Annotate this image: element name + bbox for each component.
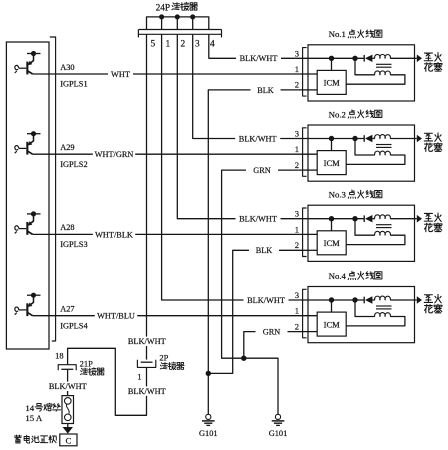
junction dot pin1 column (159, 14, 164, 19)
secondary winding T1 (375, 54, 391, 58)
coil No.3 pin2 internal wire (303, 249, 318, 251)
junction dot to primary winding No.3 (352, 216, 357, 221)
wire WHT/GRN from ECM pin A29 to coil No.2 pin 1 (33, 153, 318, 155)
svg-text:2: 2 (295, 240, 299, 250)
primary winding T1 (375, 71, 391, 75)
junction dot GRN net (241, 356, 246, 361)
fuse No.14 15A (62, 396, 74, 424)
svg-text:14: 14 (25, 403, 34, 413)
spark plug arrow No.4 (417, 296, 422, 304)
coil No.2 pin2 internal wire (303, 169, 318, 171)
spark plug label 至火花塞 No.3 (424, 213, 432, 221)
transistor Q3 (ECM driver) (15, 211, 41, 235)
svg-text:BLK/WHT: BLK/WHT (128, 387, 166, 396)
spark plug arrow No.2 (417, 135, 422, 143)
wire to primary winding No.1 (355, 58, 375, 75)
ignition coil No.4 box (308, 287, 415, 343)
svg-text:ICM: ICM (324, 238, 341, 248)
ignition coil No.2 box (308, 125, 415, 181)
battery positive terminal box C (60, 434, 77, 446)
ICM module U1 (317, 70, 346, 94)
junction dot to ICM No.2 (329, 136, 334, 141)
secondary winding T2 (375, 135, 391, 139)
svg-text:BLK/WHT: BLK/WHT (239, 215, 277, 224)
svg-text:WHT: WHT (111, 70, 130, 79)
transistor Q2 (ECM driver) (15, 131, 41, 155)
svg-text:2: 2 (295, 80, 299, 90)
24P pin1 rail drop (161, 17, 163, 29)
wire primary return to ICM No.1 (346, 75, 405, 84)
svg-text:1: 1 (295, 144, 299, 154)
svg-text:A29: A29 (60, 143, 74, 152)
24P top common rail (147, 17, 209, 29)
coil No.1 pin3 internal feed wire (303, 57, 364, 59)
svg-text:1: 1 (295, 224, 299, 234)
spark plug arrow No.1 (417, 55, 422, 63)
ECM box (6, 42, 49, 349)
wire label WHT/GRN (93, 150, 135, 159)
21P connector symbol (58, 365, 76, 371)
coil No.4 connector bracket (303, 289, 307, 338)
svg-text:BLK/WHT: BLK/WHT (240, 54, 278, 63)
svg-text:ICM: ICM (324, 319, 341, 329)
svg-text:BLK/WHT: BLK/WHT (247, 296, 285, 305)
svg-text:G101: G101 (269, 429, 288, 438)
battery label 蓄电池正极 (14, 435, 21, 443)
wire BLK/WHT column 24P pin5 down to 2P connector (146, 34, 148, 359)
coil No.4 pin3 internal feed wire (303, 299, 364, 301)
coil No.2 connector bracket (303, 128, 307, 177)
wire GRN coil2 pin2 to ground G101 (222, 170, 303, 414)
svg-text:15 A: 15 A (25, 413, 43, 423)
svg-text:A30: A30 (60, 63, 74, 72)
svg-text:2: 2 (180, 40, 185, 50)
diode D2 (363, 135, 365, 142)
svg-text:C: C (65, 436, 71, 446)
transformer core No.3 (376, 224, 392, 226)
ignition coil No.1 box (308, 45, 415, 101)
junction dot to primary winding No.1 (352, 56, 357, 61)
coil No.2 pin3 internal feed wire (303, 138, 364, 140)
svg-text:4: 4 (210, 40, 215, 50)
wire primary return to ICM No.4 (346, 317, 405, 326)
wire dot to ICM top No.1 (331, 58, 333, 70)
wire BLK/WHT column 24P pin3 to coil2 pin3 (193, 34, 303, 138)
wire BLK/WHT below 2P connector routing to 21P connector (68, 348, 147, 415)
junction dot pin2 column (175, 14, 180, 19)
wire to primary winding No.4 (355, 300, 375, 317)
svg-text:IGPLS4: IGPLS4 (60, 321, 88, 330)
wire label BLK (coil1) (251, 85, 281, 94)
svg-text:5: 5 (150, 40, 155, 50)
arrow to battery terminal (67, 424, 69, 428)
svg-text:2: 2 (295, 160, 299, 170)
svg-text:IGPLS3: IGPLS3 (60, 240, 87, 249)
svg-text:24P: 24P (156, 3, 170, 13)
wire label WHT/BLU (95, 311, 137, 320)
svg-text:WHT/BLK: WHT/BLK (95, 230, 133, 239)
coil No.3 connector bracket (303, 208, 307, 257)
svg-text:GRN: GRN (253, 166, 271, 175)
2P connector symbol (137, 360, 155, 368)
spark plug label 至火花塞 No.4 (424, 295, 432, 303)
junction dot to ICM No.1 (329, 56, 334, 61)
svg-text:No.4: No.4 (329, 271, 347, 281)
svg-text:1: 1 (165, 40, 170, 50)
spark plug label 至火花塞 No.1 (424, 53, 432, 61)
coil No.1 pin2 internal wire (303, 89, 318, 91)
diode D1 (363, 55, 365, 62)
wire BLK/WHT column 24P pin1 to coil4 pin3 (162, 34, 303, 300)
svg-text:1: 1 (137, 373, 141, 382)
junction dot to primary winding No.4 (352, 297, 357, 302)
wire secondary to spark output No.2 (390, 138, 417, 140)
wire BLK/WHT column 24P pin4 to coil1 pin3 (209, 34, 303, 58)
wire BLK/WHT 21P to fuse (67, 369, 69, 395)
wire label BLK/WHT (coil No.1 feed) (236, 54, 281, 63)
transformer core No.1 (376, 63, 392, 65)
svg-text:BLK/WHT: BLK/WHT (128, 337, 166, 346)
wire BLK/WHT column 24P pin2 to coil3 pin3 (177, 34, 302, 218)
svg-text:3: 3 (295, 290, 299, 300)
svg-text:ICM: ICM (324, 78, 341, 88)
wire label BLK (coil3) (249, 246, 279, 255)
svg-text:3: 3 (195, 40, 200, 50)
coil No.3 pin3 internal feed wire (303, 218, 364, 220)
wire label BLK/WHT above 2P connector (127, 337, 166, 346)
wire to primary winding No.2 (355, 139, 375, 156)
ICM module U2 (317, 151, 346, 175)
svg-text:18: 18 (55, 352, 63, 361)
ground symbol G101 ground 2 (275, 414, 280, 419)
transistor Q4 (ECM driver) (15, 293, 41, 316)
junction dot pin3 column (190, 14, 195, 19)
junction dot to ICM No.3 (329, 216, 334, 221)
wire BLK coil3 pin2 joining BLK net (208, 250, 302, 373)
wire secondary to spark output No.4 (390, 299, 417, 301)
ignition coil No.3 box (308, 205, 415, 261)
secondary winding T4 (375, 296, 391, 300)
wire WHT from ECM pin A30 to coil No.1 pin 1 (33, 73, 318, 75)
svg-text:No.1: No.1 (329, 29, 346, 39)
wire label BLK/WHT (fuse feed) (49, 382, 88, 391)
diode D3 (363, 215, 365, 222)
wire dot to ICM top No.4 (331, 300, 333, 312)
transformer core No.4 (376, 305, 392, 307)
spark plug label 至火花塞 No.2 (424, 133, 432, 141)
svg-text:A28: A28 (60, 223, 74, 232)
coil No.1 connector bracket (303, 48, 307, 97)
svg-text:BLK/WHT: BLK/WHT (239, 134, 277, 143)
junction dot to primary winding No.2 (352, 136, 357, 141)
wire primary return to ICM No.2 (346, 155, 405, 164)
wire dot to ICM top No.3 (331, 219, 333, 231)
svg-text:3: 3 (295, 129, 299, 139)
svg-text:2: 2 (295, 321, 299, 331)
wire primary return to ICM No.3 (346, 235, 405, 244)
svg-text:A27: A27 (60, 305, 74, 314)
svg-text:21P: 21P (80, 358, 94, 368)
24P pin3 rail drop (192, 17, 194, 29)
junction dot to ICM No.4 (329, 297, 334, 302)
primary winding T3 (375, 231, 391, 235)
transformer core No.2 (376, 144, 392, 146)
wire label GRN (coil2) (246, 166, 278, 175)
svg-text:No.2: No.2 (329, 109, 346, 119)
wire label WHT (108, 69, 133, 78)
diode D4 (363, 297, 365, 304)
spark plug arrow No.3 (417, 215, 422, 223)
wire label BLK/WHT (coil No.3 feed) (236, 214, 281, 223)
ICM module U4 (317, 312, 346, 336)
svg-text:IGPLS2: IGPLS2 (60, 160, 87, 169)
wire dot to ICM top No.2 (331, 139, 333, 151)
svg-text:3: 3 (295, 209, 299, 219)
24P connector bar (138, 29, 221, 31)
ICM module U3 (317, 231, 346, 255)
wire WHT/BLK from ECM pin A28 to coil No.3 pin 1 (33, 233, 318, 235)
svg-text:WHT/BLU: WHT/BLU (97, 312, 135, 321)
svg-text:WHT/GRN: WHT/GRN (95, 150, 134, 159)
primary winding T2 (375, 151, 391, 155)
svg-text:2P: 2P (159, 353, 168, 363)
coil No.4 pin2 internal wire (303, 331, 318, 333)
svg-text:BLK: BLK (256, 246, 273, 255)
transistor Q1 (ECM driver) (15, 51, 41, 75)
svg-text:ICM: ICM (324, 158, 341, 168)
wire secondary to spark output No.1 (390, 57, 417, 59)
wire label BLK/WHT below 2P (127, 386, 166, 395)
svg-text:IGPLS1: IGPLS1 (60, 80, 87, 89)
secondary winding T3 (375, 215, 391, 219)
wire WHT/BLU from ECM pin A27 to coil No.4 pin 1 (33, 315, 318, 317)
junction dot BLK net (206, 371, 211, 376)
svg-text:No.3: No.3 (329, 190, 347, 200)
svg-text:BLK/WHT: BLK/WHT (49, 382, 87, 391)
svg-text:G101: G101 (199, 429, 218, 438)
wire label WHT/BLK (93, 230, 135, 239)
24P pin2 rail drop (176, 17, 178, 29)
wire label BLK/WHT (coil No.2 feed) (235, 134, 280, 143)
ground symbol G101 ground 1 (206, 414, 211, 419)
primary winding T4 (375, 313, 391, 317)
wire GRN coil4 pin2 joining GRN net (244, 332, 303, 359)
svg-text:BLK: BLK (257, 86, 274, 95)
svg-text:3: 3 (295, 48, 299, 58)
ECM connector bracket (50, 37, 56, 341)
svg-text:1: 1 (295, 64, 299, 74)
wire label BLK/WHT (coil No.4 feed) (244, 295, 289, 304)
wire BLK coil1 pin2 to ground G101 (208, 90, 302, 414)
wire to primary winding No.3 (355, 219, 375, 236)
wire secondary to spark output No.3 (390, 218, 417, 220)
wire label GRN (coil4) (256, 327, 288, 336)
svg-text:GRN: GRN (263, 328, 281, 337)
svg-text:1: 1 (295, 306, 299, 316)
